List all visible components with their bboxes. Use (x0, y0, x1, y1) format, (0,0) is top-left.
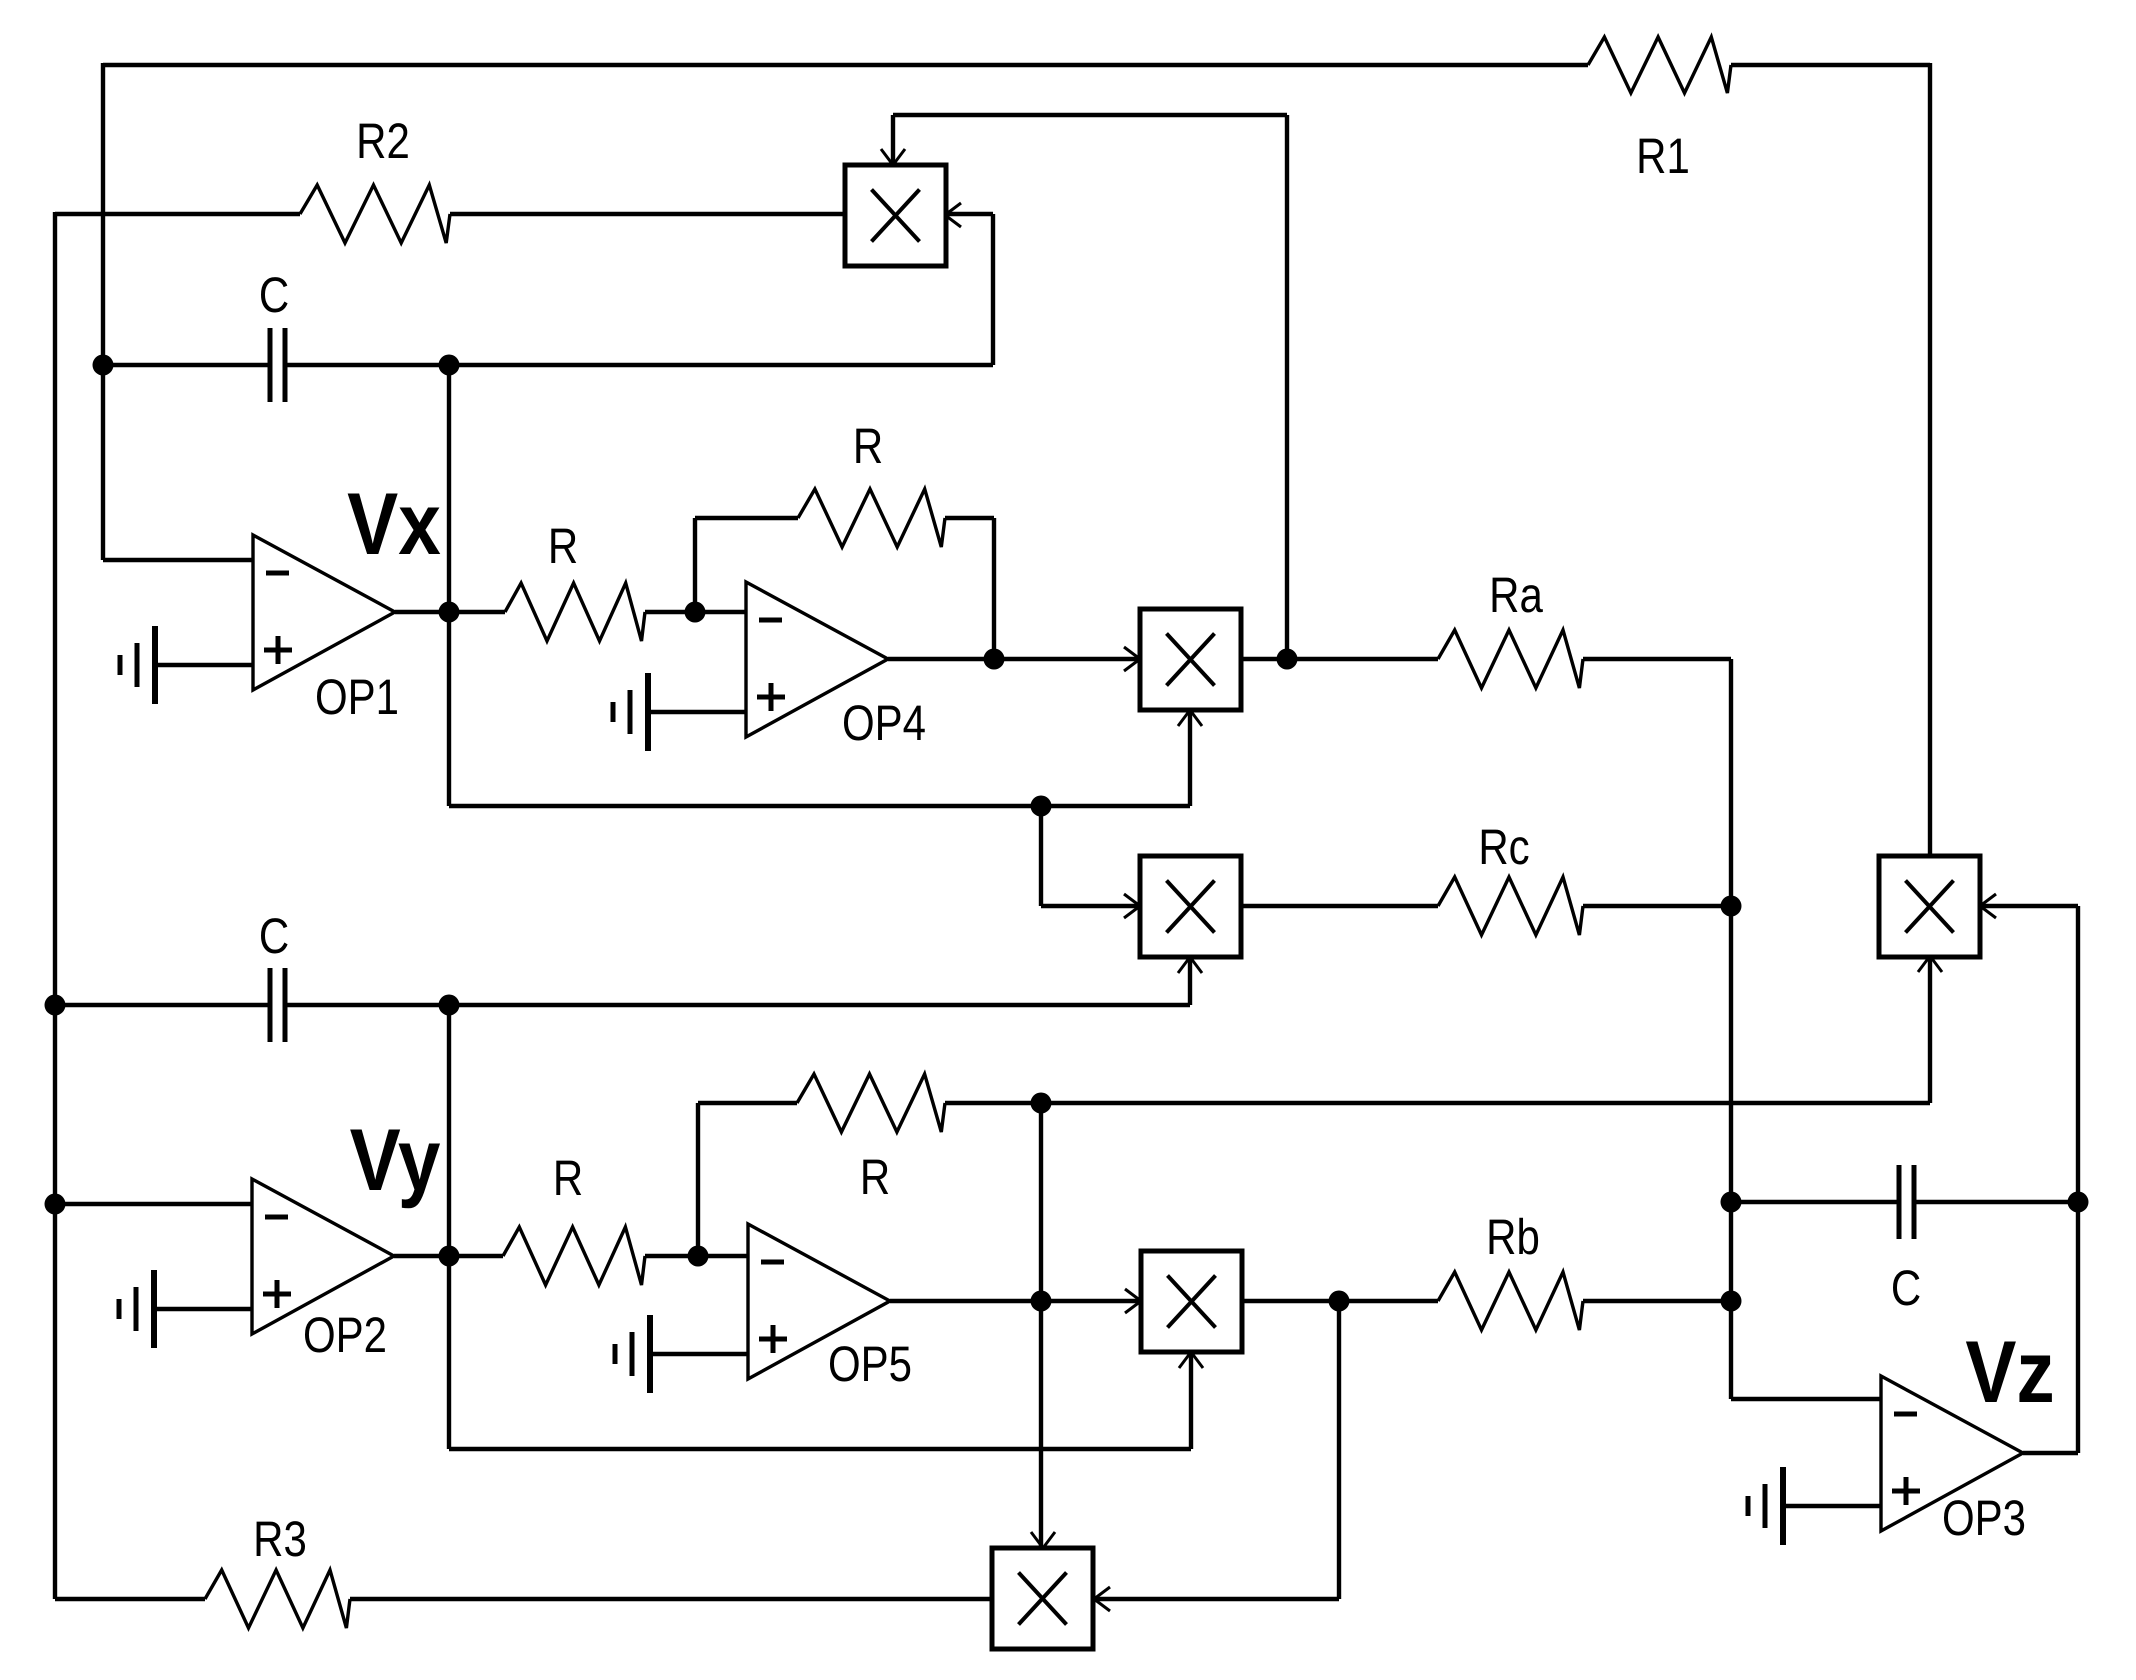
svg-text:C: C (1891, 1260, 1921, 1316)
wire C3 row right segment (1914, 1200, 2078, 1204)
svg-text:OP1: OP1 (315, 669, 399, 725)
wire multiplier U1 right input from Vx cap node (945, 212, 993, 216)
arrow U1 right input (945, 203, 961, 215)
wire OP5 feedback top left segment (698, 1101, 797, 1105)
wire Vy bus horizontal y=1449 (447, 1256, 451, 1449)
svg-text:R: R (548, 518, 578, 574)
node junction Rb at right bus (1721, 1291, 1742, 1312)
svg-text:R1: R1 (1636, 128, 1690, 184)
wire Rc to right vertical bus (1583, 904, 1731, 908)
svg-text:Vy: Vy (350, 1110, 441, 1209)
capacitor C (Vy integrator) (268, 968, 273, 1042)
arrow U6 bottom input (1918, 956, 1930, 972)
arrow U5 right input (1094, 1587, 1110, 1599)
svg-text:Rb: Rb (1486, 1209, 1540, 1265)
node junction x=55 at C2 row (45, 995, 66, 1016)
op-amp OP4 (746, 582, 888, 737)
wire U3 bottom input from C2 row (1188, 957, 1192, 1005)
resistor R series OP2-OP5 (503, 1227, 645, 1285)
node junction x=103 at capacitor C1 row (93, 355, 114, 376)
wire R3 to multiplier U5 output (350, 1597, 992, 1601)
wire U5 right input (1094, 1597, 1339, 1601)
wire U2 output to Ra (1241, 657, 1438, 661)
node junction Rc at right bus (1721, 896, 1742, 917)
wire R1 right to multiplier U6 output (top) (1731, 63, 1930, 67)
resistor R3 (205, 1570, 350, 1628)
svg-text:C: C (259, 267, 289, 323)
svg-text:R: R (853, 418, 883, 474)
wire C1 row left segment (103, 363, 270, 367)
node junction OP5 output (1031, 1291, 1052, 1312)
multiplier U3 (Vx*Vy) (1140, 856, 1241, 957)
node junction feedback net at x=1041 (1031, 1093, 1052, 1114)
wire OP4 feedback right down to output (945, 516, 994, 520)
node junction OP2 inverting input at x=55 (45, 1194, 66, 1215)
arrow U4 bottom input (1179, 1352, 1191, 1368)
svg-text:OP2: OP2 (303, 1307, 387, 1363)
resistor R2 (300, 185, 450, 243)
wire U3 output to Rc (1241, 904, 1438, 908)
wire R3 left segment (55, 1597, 205, 1601)
wire vertical Vy node x=449 (447, 1005, 451, 1256)
wire C2 row right segment (285, 1003, 1190, 1007)
wire vertical x=1287 from U1 net down to U2 output node (1285, 115, 1289, 659)
wire right vertical x=1731 (Ra/Rc/C/Rb to OP3) (1729, 659, 1733, 1399)
wire U4 bottom input from Vy bus (1189, 1352, 1193, 1449)
wire C3 row left segment (1731, 1200, 1899, 1204)
node junction U2 output (1277, 649, 1298, 670)
op-amp OP5 (748, 1224, 890, 1379)
node junction OP4 output (984, 649, 1005, 670)
wire OP4 output to multiplier U2 (888, 657, 1140, 661)
resistor R feedback OP4 (798, 489, 945, 547)
ground at OP1 non-inverting input (152, 626, 158, 704)
arrow U2 left input (1124, 647, 1140, 659)
arrow U3 left input (1124, 894, 1140, 906)
wire OP4 feedback up (693, 518, 697, 612)
wire C1 row right segment (285, 363, 993, 367)
arrow U1 top input (881, 149, 893, 165)
wire OP3 inverting input from right bus (1731, 1397, 1881, 1401)
svg-text:Vx: Vx (347, 474, 441, 573)
resistor Rc (1438, 877, 1583, 935)
wire top net OP1 integrator node to R1 (103, 63, 1588, 67)
node junction C3 right (2068, 1192, 2089, 1213)
svg-text:R3: R3 (253, 1511, 307, 1567)
node junction OP5 inverting input (688, 1246, 709, 1267)
wire C2 row left segment (55, 1003, 270, 1007)
wire OP2 integrator node vertical x=55 (53, 212, 57, 1599)
ground at OP5 non-inverting input (647, 1315, 653, 1393)
resistor R feedback OP5 (797, 1074, 945, 1132)
arrow U4 left input (1125, 1289, 1141, 1301)
wire U2 bottom input from Vx bus (1188, 710, 1192, 806)
ground at OP2 non-inverting input (151, 1270, 157, 1348)
svg-text:R: R (553, 1150, 583, 1206)
wire vertical x=2078 Vz output net (2076, 906, 2080, 1453)
wire R2 left end to OP2 integrator vertical (55, 212, 300, 216)
arrow U5 top input (1031, 1532, 1043, 1548)
svg-text:Rc: Rc (1478, 819, 1529, 875)
wire left vertical integrator node x=103 (101, 63, 105, 560)
node junction OP1 output (439, 602, 460, 623)
wire vertical from U4 output node down to U5 right input (1337, 1301, 1341, 1599)
node junction OP4 inverting input (685, 602, 706, 623)
wire feedback net to U6 bottom input (945, 1101, 1930, 1105)
op-amp OP3 (1881, 1376, 2023, 1531)
multiplier U4 (Vy*Vz) (1141, 1251, 1242, 1352)
svg-text:OP5: OP5 (828, 1336, 912, 1392)
wire OP5 feedback up (696, 1103, 700, 1256)
ground at OP4 non-inverting input (645, 673, 651, 751)
wire vertical Vx node x=449 upper (447, 365, 451, 612)
wire OP3 output (2023, 1451, 2078, 1455)
wire OP1 output to series R (395, 610, 505, 614)
svg-text:C: C (259, 908, 289, 964)
wire OP5 output to multiplier U4 (890, 1299, 1141, 1303)
wire OP2 inverting input (55, 1202, 252, 1206)
resistor Ra (1438, 630, 1583, 688)
op-amp OP2 (252, 1179, 394, 1334)
wire R2 to multiplier U1 output (450, 212, 845, 216)
op-amp OP1 (253, 535, 395, 690)
svg-text:R2: R2 (356, 113, 410, 169)
resistor R1 (1588, 37, 1731, 93)
arrow U3 bottom input (1178, 957, 1190, 973)
wire OP2 output to series R (394, 1254, 503, 1258)
svg-text:R: R (860, 1149, 890, 1205)
svg-text:Vz: Vz (1965, 1322, 2054, 1421)
wire OP1 inverting input (103, 558, 253, 562)
node junction U4 output (1329, 1291, 1350, 1312)
svg-text:OP3: OP3 (1942, 1490, 2026, 1546)
resistor R series OP1-OP4 (505, 583, 645, 641)
multiplier U6 (Vy*Vz feedback) (1879, 856, 1980, 957)
wire U6 right input from Vz net (1980, 904, 2078, 908)
ground at OP3 non-inverting input (1780, 1467, 1786, 1545)
wire series R to OP4 inverting node (645, 610, 746, 614)
multiplier U2 (Vx*Vx) (1140, 609, 1241, 710)
wire U1 top input from x-squared net (891, 115, 895, 165)
node junction Vx at C1 (439, 355, 460, 376)
wire series R to OP5 inverting node (645, 1254, 748, 1258)
multiplier U5 (bottom Vy*Vy) (992, 1548, 1093, 1649)
wire Ra to right vertical bus (1583, 657, 1731, 661)
wire vertical x=1041 OP5 output node (1039, 1103, 1043, 1548)
svg-text:Ra: Ra (1489, 567, 1543, 623)
arrow U2 bottom input (1178, 710, 1190, 726)
wire U4 output to Rb (1242, 1299, 1438, 1303)
svg-text:OP4: OP4 (842, 695, 926, 751)
wire U6 bottom input from feedback net (1928, 956, 1932, 1103)
multiplier U1 (top) (845, 165, 946, 266)
capacitor C (Vx integrator) (268, 328, 273, 402)
wire Rb to right vertical bus (1583, 1299, 1731, 1303)
resistor Rb (1438, 1272, 1583, 1330)
capacitor C (Vz integrator) (1897, 1165, 1902, 1239)
node junction Vx bus tee (1031, 796, 1052, 817)
arrow U6 right input (1980, 894, 1996, 906)
node junction C3 left at right bus (1721, 1192, 1742, 1213)
node junction Vy at C2 (439, 995, 460, 1016)
wire OP4 feedback top left segment (695, 516, 798, 520)
wire Vx bus horizontal y=806 (447, 612, 451, 806)
node junction OP2 output (439, 1246, 460, 1267)
wire from Vx bus down to U3 left input (1039, 806, 1043, 906)
